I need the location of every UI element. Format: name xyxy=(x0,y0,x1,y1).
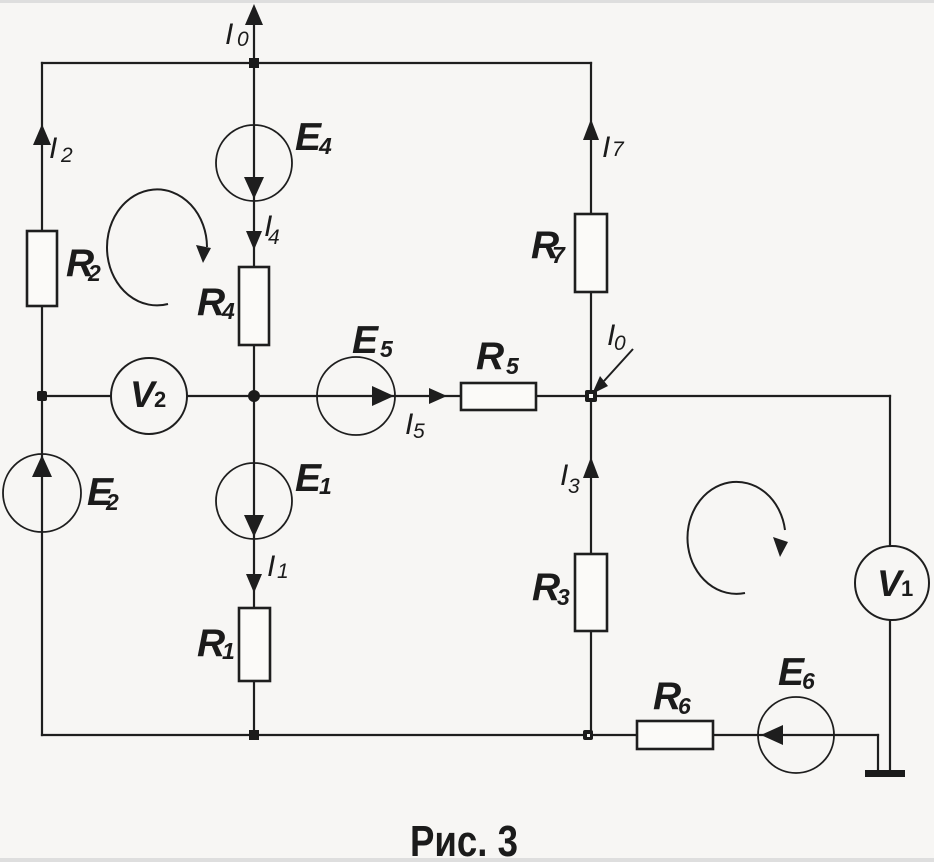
loop arrow left xyxy=(107,189,207,305)
wire middle horizontal left of V2 xyxy=(42,395,111,397)
current arrow I1 xyxy=(246,574,262,593)
svg-text:1: 1 xyxy=(901,576,913,601)
node right middle xyxy=(585,390,597,402)
resistor R7 xyxy=(575,214,607,292)
svg-text:2: 2 xyxy=(87,260,101,286)
voltmeter V2 xyxy=(111,358,187,434)
node bottom center xyxy=(249,730,259,740)
svg-text:E: E xyxy=(295,457,322,500)
source E5 xyxy=(317,357,395,435)
svg-text:0: 0 xyxy=(614,332,626,355)
svg-text:2: 2 xyxy=(105,489,119,515)
svg-text:1: 1 xyxy=(222,638,235,664)
wire bottom horizontal xyxy=(42,734,878,736)
current arrow I2 xyxy=(33,124,51,145)
current arrow I5 xyxy=(429,388,447,404)
svg-text:2: 2 xyxy=(154,387,166,412)
svg-text:R: R xyxy=(476,335,504,378)
current arrow I3 xyxy=(583,457,599,478)
svg-text:6: 6 xyxy=(802,668,815,694)
source E1 xyxy=(216,463,292,539)
svg-text:E: E xyxy=(295,116,322,159)
svg-text:5: 5 xyxy=(380,336,394,362)
ground xyxy=(865,770,905,777)
wire top horizontal xyxy=(42,62,591,64)
current arrow I4 xyxy=(246,231,262,250)
voltmeter V1 xyxy=(855,546,929,620)
node at top center xyxy=(249,58,259,68)
node bottom right xyxy=(583,730,593,740)
svg-text:E: E xyxy=(352,319,379,362)
wire left vertical xyxy=(41,63,43,735)
svg-text:3: 3 xyxy=(557,584,570,610)
svg-text:7: 7 xyxy=(552,242,566,268)
wire far right vertical upper xyxy=(889,396,891,546)
resistor R2 xyxy=(27,231,57,306)
svg-text:0: 0 xyxy=(237,28,249,51)
svg-text:1: 1 xyxy=(277,560,289,583)
source E2 xyxy=(3,454,81,532)
svg-text:I: I xyxy=(267,550,275,583)
svg-text:I: I xyxy=(602,131,610,164)
resistor R6 xyxy=(637,721,713,749)
svg-text:R: R xyxy=(532,566,560,609)
svg-text:1: 1 xyxy=(319,473,332,499)
resistor R5 xyxy=(461,383,536,410)
wire right vertical xyxy=(590,63,592,735)
svg-text:R: R xyxy=(197,622,225,665)
current arrow I7 xyxy=(583,119,599,140)
svg-text:Рис. 3: Рис. 3 xyxy=(410,817,518,862)
current arrow I0 top xyxy=(245,4,263,25)
svg-text:E: E xyxy=(778,651,805,694)
node center middle xyxy=(248,390,260,402)
svg-text:4: 4 xyxy=(221,298,235,324)
loop arrow right xyxy=(687,482,785,594)
svg-text:R: R xyxy=(197,281,225,324)
svg-text:3: 3 xyxy=(568,475,580,498)
resistor R1 xyxy=(239,608,270,681)
node left middle xyxy=(37,391,47,401)
svg-text:4: 4 xyxy=(318,133,332,159)
source E6 xyxy=(758,697,834,773)
wire bottom right bend to ground xyxy=(877,735,879,770)
wire middle vertical xyxy=(253,10,255,735)
svg-text:7: 7 xyxy=(612,138,625,161)
svg-text:I: I xyxy=(225,18,233,51)
svg-text:2: 2 xyxy=(60,144,73,167)
svg-text:I: I xyxy=(49,132,57,165)
svg-text:6: 6 xyxy=(678,693,691,719)
svg-text:4: 4 xyxy=(268,226,280,249)
svg-text:R: R xyxy=(653,675,681,718)
svg-text:5: 5 xyxy=(413,420,425,443)
wire far right vertical lower xyxy=(889,620,891,770)
resistor R3 xyxy=(575,554,607,631)
wire middle horizontal right of V2 xyxy=(187,395,890,397)
svg-text:5: 5 xyxy=(506,353,520,379)
resistor R4 xyxy=(239,267,269,345)
source E4 xyxy=(216,125,292,201)
current arrow I0 diagonal at node xyxy=(604,349,633,381)
